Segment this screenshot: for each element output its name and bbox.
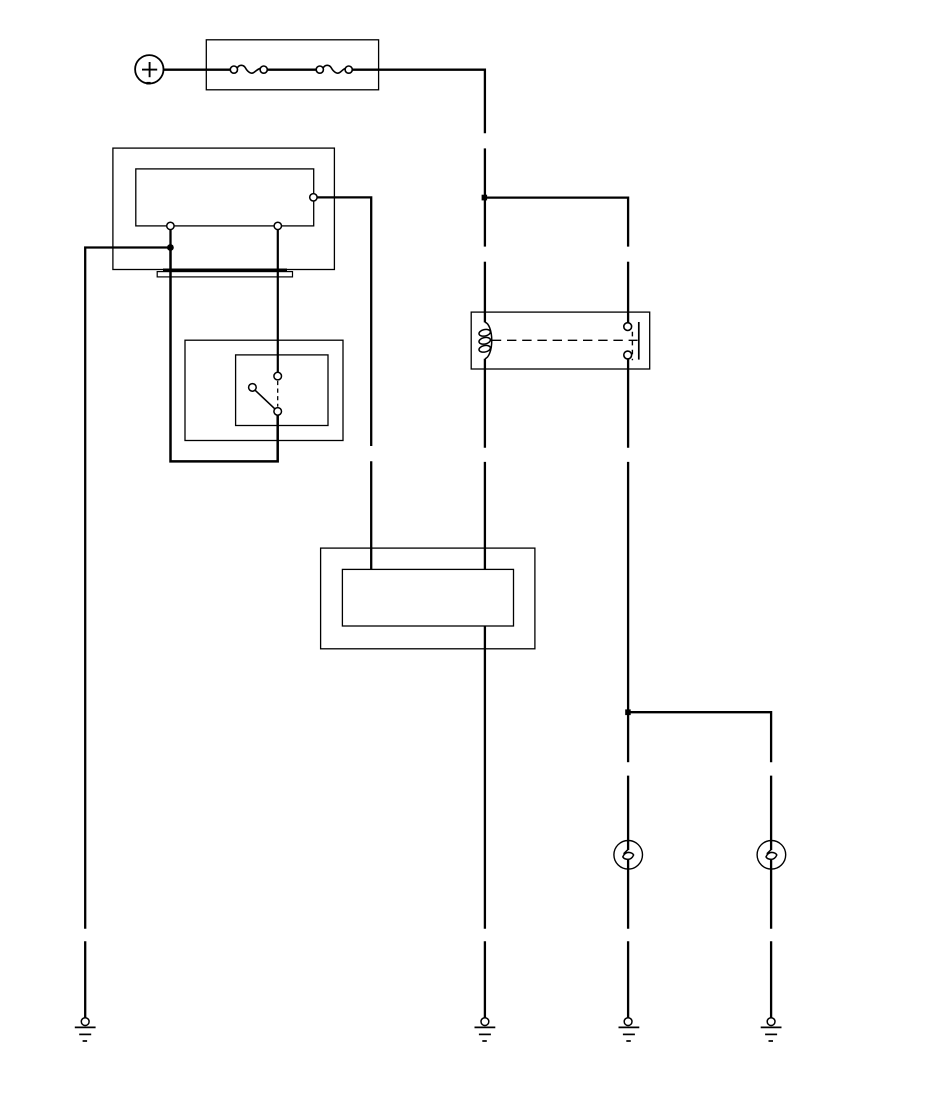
ignition switch outer box	[113, 148, 335, 269]
wire after break to ground 2	[484, 941, 486, 1017]
wire relay coil down (segment)	[484, 359, 486, 448]
switch terminal top	[274, 372, 282, 380]
wire battery to fuse box	[163, 69, 230, 71]
wire to lamp L2 after break	[770, 776, 772, 850]
junction A	[482, 195, 488, 201]
fuse F2	[316, 65, 352, 73]
wire after break to ground 3	[627, 941, 629, 1017]
wire right ignition terminal down to switch upper terminal	[277, 230, 279, 373]
relay box	[471, 312, 650, 369]
wire junction A down (segment)	[484, 198, 486, 247]
wire lamp L2 down (segment)	[770, 860, 772, 929]
wire after break to ground 1	[84, 941, 86, 1017]
ignition terminal 1	[167, 222, 174, 229]
wire between fuses	[267, 69, 316, 71]
wire coil chain after break into center unit	[484, 462, 486, 570]
battery B+	[135, 55, 163, 84]
ignition terminal 3	[310, 194, 317, 201]
junction C	[167, 244, 174, 251]
relay coil	[478, 322, 491, 359]
wire lamp L1 down (segment)	[627, 860, 629, 929]
wire contact chain after break down to junction B	[627, 462, 629, 712]
wire junction B down (segment)	[627, 712, 629, 762]
ground G4	[761, 1018, 782, 1041]
connector bar	[157, 270, 292, 277]
wire relay contact down (segment)	[627, 359, 629, 448]
ignition terminal 2	[274, 222, 281, 229]
wire fuse box to top-right corner, down (segment 1)	[352, 70, 485, 134]
switch terminal bottom	[274, 408, 282, 416]
wire segment after break into center unit	[370, 461, 372, 569]
ignition switch inner box	[136, 169, 314, 226]
wire to relay coil after break	[484, 262, 486, 323]
switch outer box	[185, 340, 343, 440]
center unit outer box	[321, 548, 535, 649]
wire left ignition terminal down to junction C	[169, 230, 171, 248]
wire after break to ground 4	[770, 941, 772, 1017]
switch terminal left	[249, 384, 257, 392]
wire to relay contact after break	[627, 262, 629, 323]
switch dashed position	[277, 381, 279, 407]
lamp L1	[614, 841, 643, 870]
center unit inner box	[342, 569, 513, 626]
ground G1	[75, 1018, 96, 1041]
wire junction B right and down	[628, 712, 771, 762]
switch inner box	[236, 355, 328, 426]
wire junction A right and down toward relay contact	[485, 198, 628, 247]
fuse box	[206, 40, 378, 90]
wire center unit down (segment)	[484, 626, 486, 929]
ground G2	[475, 1018, 496, 1041]
relay internal dashed link	[492, 339, 638, 341]
ground G3	[619, 1018, 640, 1041]
wire to lamp L1 after break	[627, 776, 629, 850]
lamp L2	[757, 841, 786, 870]
wire junction C down, right, up to switch lower terminal	[171, 248, 278, 462]
wire junction C left and down to ground 1	[85, 248, 170, 929]
fuse F1	[230, 65, 267, 73]
switch blade	[255, 390, 275, 409]
relay contact	[624, 322, 639, 360]
wire segment 2 down to junction A	[484, 148, 486, 197]
wire ignition right terminal to center unit	[317, 197, 371, 446]
junction B	[625, 709, 631, 715]
